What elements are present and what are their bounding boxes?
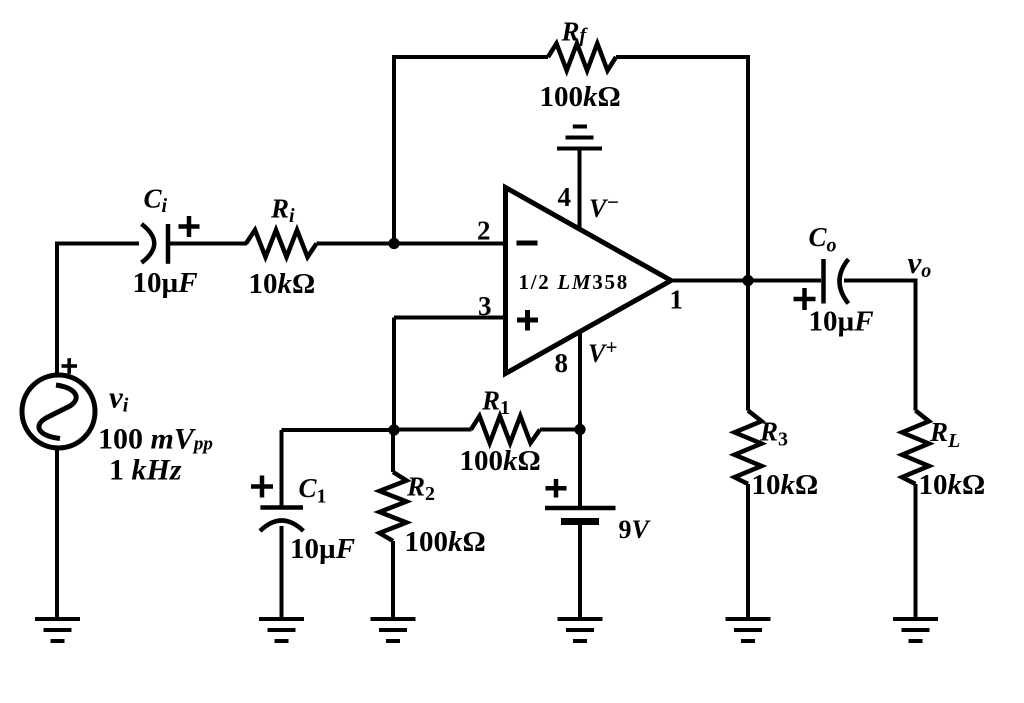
wire battery top [578, 430, 582, 507]
wire output [671, 279, 821, 283]
wire C1 to ground [280, 526, 284, 618]
wire C1 horizontal [282, 428, 395, 432]
wire pin3 horizontal [394, 316, 506, 320]
minus inside op-amp [517, 241, 538, 246]
svg-text:100kΩ: 100kΩ [460, 445, 541, 477]
wire left rail horizontal [57, 242, 139, 246]
plus inside op-amp [517, 310, 538, 331]
wire left rail vertical [55, 242, 59, 378]
wire feedback vertical right [746, 57, 750, 281]
svg-text:10µF: 10µF [290, 533, 355, 565]
source vi circle [22, 375, 95, 448]
svg-text:1 kHz: 1 kHz [109, 454, 182, 487]
wire C1 vertical top [280, 430, 284, 506]
node junction C1/R2/R1 [388, 424, 399, 435]
wire R3 top [746, 281, 750, 411]
wire R2 top [391, 430, 395, 472]
svg-text:100kΩ: 100kΩ [540, 81, 621, 113]
node junction output/R3/feedback [742, 275, 753, 286]
capacitor C1 curved plate [260, 521, 303, 532]
svg-text:3: 3 [478, 291, 492, 321]
svg-text:10µF: 10µF [133, 267, 198, 299]
wire Ci to Ri [170, 242, 247, 246]
op-amp U1 triangle [506, 188, 672, 374]
svg-text:1: 1 [670, 285, 684, 315]
wire pin4 vertical [578, 149, 582, 229]
battery short plate [561, 518, 599, 525]
svg-text:8: 8 [555, 348, 569, 378]
plus at battery [546, 479, 567, 498]
resistor Rf zigzag [548, 44, 616, 71]
ground under battery [558, 619, 603, 641]
resistor Ri zigzag [246, 230, 317, 257]
plus at C1 [251, 476, 273, 498]
svg-text:2: 2 [477, 216, 491, 246]
ground under RL [893, 619, 938, 641]
ground symbols [35, 127, 938, 642]
wire R1 horizontal left [394, 428, 472, 432]
wire R3 to ground [746, 484, 750, 618]
svg-text:9V: 9V [619, 515, 652, 544]
ground inverted above pin4 [557, 127, 602, 149]
svg-text:10kΩ: 10kΩ [919, 469, 986, 501]
svg-text:10kΩ: 10kΩ [752, 469, 819, 501]
wire feedback vertical left [392, 57, 396, 244]
capacitor Co curved plate [840, 259, 849, 303]
junction dots [388, 238, 753, 436]
ground under C1 [259, 619, 304, 641]
ground under R3 [726, 619, 771, 641]
ground under R2 [371, 619, 416, 641]
wire pin8 vertical [578, 332, 582, 430]
wire vi to ground [55, 447, 59, 618]
wire pin3 vertical down [392, 318, 396, 431]
wire vo vertical [914, 281, 918, 411]
plus above vi [62, 358, 78, 374]
svg-text:10µF: 10µF [809, 306, 874, 338]
svg-text:100kΩ: 100kΩ [405, 526, 486, 558]
resistor R3 zigzag [735, 411, 762, 485]
wire Rf to right corner [616, 55, 750, 59]
capacitor Ci curved plate [142, 224, 155, 263]
plus at Ci [179, 216, 200, 237]
source vi sine [39, 385, 76, 439]
svg-text:1/2 LM358: 1/2 LM358 [519, 270, 629, 294]
wire Co to vo corner [844, 279, 918, 283]
wire battery to ground [578, 525, 582, 618]
capacitor C1 straight plate [260, 505, 303, 510]
wire R2 to ground [391, 541, 395, 618]
ground under vi [35, 619, 80, 641]
resistor R2 zigzag [380, 472, 407, 541]
svg-text:4: 4 [558, 182, 572, 212]
battery long plate [545, 506, 616, 511]
resistor R1 zigzag [471, 416, 540, 443]
svg-text:10kΩ: 10kΩ [249, 268, 316, 300]
node junction Ri/feedback [388, 238, 399, 249]
capacitor Co straight plate [821, 259, 826, 304]
plus/minus marks drawn as strokes [62, 216, 816, 498]
node junction R1/battery/pin8 [574, 424, 585, 435]
wire RL to ground [914, 484, 918, 618]
wire Ri to opamp pin2 [317, 242, 506, 246]
resistor RL zigzag [902, 411, 929, 485]
wire top left to Rf [392, 55, 548, 59]
plus at Co [794, 288, 816, 310]
wire R1 to battery node [540, 428, 580, 432]
capacitor Ci straight plate [166, 224, 171, 264]
